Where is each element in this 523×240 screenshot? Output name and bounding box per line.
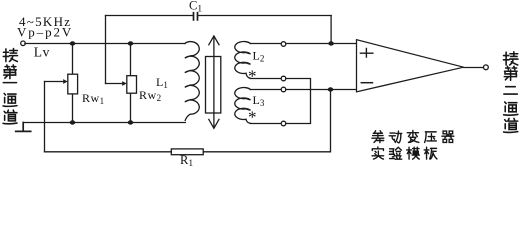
node: Rw1 bottom junction — [70, 120, 76, 124]
potentiometer Rw2 — [130, 46, 132, 121]
char 板 — [424, 147, 437, 159]
wire: R1 right lead up to - input node — [203, 90, 330, 152]
terminal: output — [484, 65, 489, 70]
wire: C1 drop to + input node at x=331 — [330, 16, 332, 44]
left caption: 接第一通道 (vertical) — [3, 48, 518, 159]
svg-text:Lv: Lv — [34, 45, 50, 60]
node: C1 to + input junction — [328, 41, 334, 45]
char 一 (left col 3) — [3, 82, 16, 84]
movable core (rect + double arrow) — [206, 57, 221, 114]
terminal L2 bottom — [281, 76, 286, 81]
wire: L2 top to terminal — [251, 43, 282, 45]
terminal L3 top — [281, 87, 286, 92]
char 变 — [407, 131, 419, 143]
potentiometer Rw1 — [72, 46, 74, 121]
char 通 (left col 4) — [3, 93, 17, 106]
capacitor C1 — [106, 15, 332, 17]
terminal L2 top — [281, 42, 286, 47]
wire: L3 top to terminal — [251, 89, 282, 91]
wire: L3 top terminal to op-amp - input — [286, 89, 357, 91]
node: R1 junction on - input wire — [328, 87, 334, 91]
wire: L3 bottom to terminal — [250, 123, 281, 125]
terminal L3 bottom — [281, 121, 286, 126]
char 模 — [407, 147, 420, 159]
char 接 (left col 1) — [3, 48, 17, 61]
wire: input bus from Lv to L1 top — [25, 43, 185, 45]
wiper of Rw1 (arrow into body, tail down to R1 wire) — [45, 81, 64, 83]
svg-text:Vp–p2V: Vp–p2V — [17, 25, 73, 40]
terminal Lv (input) — [21, 41, 26, 46]
wire: L2 bottom terminal down to L3 bottom terminal (series link) — [286, 79, 311, 124]
wiper of Rw2 (arrow into body, tail up to C1) — [106, 83, 123, 85]
node: Rw2 bottom junction — [128, 120, 134, 124]
svg-text:*: * — [248, 67, 257, 86]
inductor L1 (primary coil) — [185, 42, 199, 121]
char 器 — [442, 131, 454, 142]
op-amp U1 — [357, 40, 464, 92]
char 接 (right col 1) — [503, 52, 518, 65]
wire: R1 left to Rw1 wiper tail — [45, 151, 172, 153]
char 道 (right col 5) — [504, 118, 518, 132]
char 压 — [425, 132, 437, 143]
inductor L2 (secondary top) — [235, 42, 251, 79]
svg-text:*: * — [248, 108, 257, 127]
char 动 — [389, 131, 402, 143]
char 通 (right col 4) — [504, 102, 518, 115]
char 验 — [389, 147, 401, 159]
resistor R1 — [171, 149, 203, 155]
wire: L2 bottom to terminal — [250, 78, 281, 80]
wire: L2 top terminal to op-amp + input — [286, 43, 357, 45]
char 二 (right col 3) — [504, 87, 517, 94]
node: Rw2 top junction — [128, 41, 134, 45]
ground — [16, 123, 31, 132]
node: Rw1 top junction — [70, 41, 76, 45]
char 道 (left col 5) — [3, 110, 17, 124]
wire: op-amp output — [464, 67, 484, 69]
inductor L3 (secondary bottom) — [235, 88, 251, 124]
wire: ground bus from ground to L1 bottom — [23, 122, 185, 124]
char 实 — [372, 147, 384, 159]
char 差 — [372, 131, 384, 143]
char 第 (left col 2) — [4, 65, 17, 79]
char 第 (right col 2) — [504, 66, 517, 80]
